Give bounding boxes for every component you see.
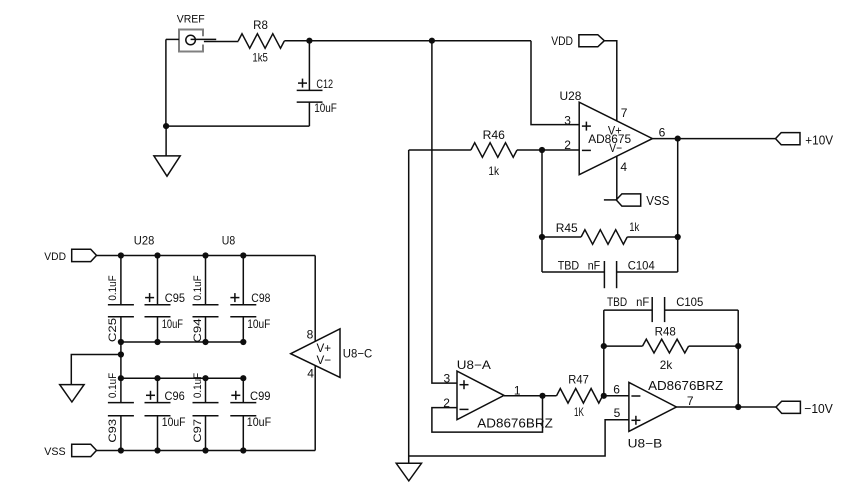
svg-text:C104: C104 (628, 258, 655, 272)
svg-text:1k: 1k (488, 164, 500, 178)
svg-text:1K: 1K (574, 405, 584, 419)
svg-text:VDD: VDD (44, 251, 66, 263)
power flag VSS (left) (72, 444, 97, 456)
junctions on lower rail (118, 375, 124, 381)
svg-text:TBD: TBD (558, 258, 580, 272)
svg-text:VSS: VSS (44, 446, 65, 458)
svg-text:V−: V− (609, 141, 622, 155)
svg-text:6: 6 (613, 382, 620, 396)
svg-text:R45: R45 (556, 221, 578, 235)
svg-text:VREF: VREF (177, 14, 205, 26)
capacitor C95 (145, 256, 171, 343)
wire U8-B output (676, 406, 776, 408)
svg-text:0.1uF: 0.1uF (107, 373, 119, 399)
svg-text:TBD: TBD (607, 295, 627, 309)
junction output node (675, 136, 681, 142)
lower rail (121, 377, 243, 379)
svg-text:VDD: VDD (551, 34, 573, 48)
svg-text:7: 7 (687, 394, 694, 408)
op-amp U8-A AD8676BRZ (457, 371, 504, 420)
svg-text:5: 5 (614, 406, 621, 420)
svg-text:8: 8 (307, 327, 314, 341)
wire U8-A output (504, 395, 557, 397)
resistor R46 (409, 149, 471, 151)
mid rail (121, 341, 243, 343)
wire VDD to U28 pin7 (604, 41, 617, 121)
svg-text:C93: C93 (107, 419, 119, 443)
svg-text:U8−B: U8−B (628, 437, 663, 451)
svg-text:10uF: 10uF (162, 415, 186, 429)
junction U8-B pin6 node (601, 393, 607, 399)
junction output node (735, 404, 741, 410)
ground (bottom-mid) (396, 463, 421, 481)
svg-text:3: 3 (444, 372, 451, 386)
svg-text:R46: R46 (483, 128, 506, 142)
junctions on mid rail (118, 339, 124, 345)
VDD rail (97, 255, 316, 257)
op-amp U8-C power pins (314, 256, 316, 342)
wire R8 to node A (284, 40, 309, 42)
svg-text:C94: C94 (192, 318, 204, 342)
wire pin2 node down to R45 (541, 150, 543, 237)
svg-text:10uF: 10uF (247, 415, 271, 429)
svg-text:R8: R8 (253, 18, 268, 32)
svg-text:0.1uF: 0.1uF (192, 373, 204, 399)
wire VREF down to ground node (165, 39, 167, 126)
svg-text:−10V: −10V (804, 401, 833, 416)
wire R46 left down to ground (408, 150, 410, 463)
node tap junction (429, 38, 435, 44)
wire ground tap (71, 355, 121, 385)
resistor R45 (539, 234, 545, 240)
VSS rail (97, 450, 316, 452)
svg-text:AD8676BRZ: AD8676BRZ (648, 378, 723, 393)
power flag VDD (top) (579, 35, 604, 47)
svg-text:nF: nF (636, 295, 649, 309)
svg-text:10uF: 10uF (162, 317, 183, 331)
ground (decoupling) (60, 385, 84, 402)
resistor R47 (557, 389, 603, 404)
wire U28 output (652, 138, 775, 140)
svg-text:U8−A: U8−A (457, 358, 491, 372)
wire U28 pin4 to VSS (616, 156, 618, 200)
wire output node down to R45 (677, 139, 679, 237)
svg-text:0.1uF: 0.1uF (192, 275, 204, 301)
capacitor C98 (230, 256, 256, 343)
wire VREF left (166, 38, 179, 40)
capacitor C25 (108, 256, 134, 343)
svg-text:nF: nF (588, 258, 601, 272)
svg-text:7: 7 (621, 106, 628, 120)
svg-text:U28: U28 (560, 89, 582, 103)
svg-text:U8−C: U8−C (343, 346, 373, 360)
svg-text:C12: C12 (316, 77, 333, 91)
svg-text:VSS: VSS (646, 193, 669, 208)
wire U8-B pin5 to ground rail (409, 420, 629, 456)
svg-text:C97: C97 (192, 419, 204, 443)
power flag VDD (left) (72, 249, 97, 261)
junction ground tap (118, 351, 124, 357)
junction VREF/C12 ground node (163, 123, 169, 129)
wire C12 bottom to ground node (166, 125, 309, 127)
svg-text:6: 6 (659, 126, 666, 140)
wire C105 left down (603, 310, 605, 396)
node A junction (306, 38, 312, 44)
svg-text:4: 4 (620, 160, 627, 174)
capacitor C99 (230, 378, 256, 450)
wire U8-A pin2 feedback loop (432, 396, 543, 432)
svg-text:+10V: +10V (805, 133, 833, 148)
junctions on VDD rail (118, 252, 124, 258)
wire C105 right down (737, 310, 739, 407)
ground (top-left) (154, 126, 180, 176)
junction U8-A output node (539, 393, 545, 399)
connector VREF (179, 30, 238, 52)
resistor R48 (601, 343, 607, 349)
svg-text:U28: U28 (134, 233, 155, 247)
capacitor C105 (604, 297, 738, 322)
svg-text:U8: U8 (222, 233, 236, 247)
svg-text:C105: C105 (676, 295, 703, 309)
svg-text:C98: C98 (251, 291, 270, 305)
power flag VSS (mid) (616, 194, 641, 206)
power flag -10V (776, 401, 800, 413)
svg-text:AD8676BRZ: AD8676BRZ (477, 415, 553, 430)
op-amp U8-B AD8676BRZ (629, 382, 677, 431)
svg-text:4: 4 (307, 366, 314, 380)
svg-text:1k: 1k (629, 220, 640, 234)
capacitor C104 (542, 237, 678, 288)
wire mid to lower rail (120, 342, 122, 378)
svg-text:10uF: 10uF (314, 101, 337, 115)
svg-text:C99: C99 (250, 389, 271, 403)
svg-text:3: 3 (564, 114, 571, 128)
capacitor C97 (193, 378, 219, 450)
svg-text:R47: R47 (568, 372, 589, 386)
power flag +10V (776, 133, 801, 145)
svg-text:C96: C96 (165, 389, 185, 403)
wire tap down to U8-A pin3 (432, 41, 457, 383)
svg-text:C25: C25 (107, 318, 119, 342)
op-amp U28 AD8675 (579, 102, 652, 175)
svg-text:R48: R48 (655, 324, 677, 338)
svg-text:10uF: 10uF (247, 317, 270, 331)
capacitor C12 (297, 41, 323, 126)
svg-text:0.1uF: 0.1uF (107, 275, 119, 301)
wire node A to U28 (309, 40, 531, 42)
capacitor C96 (145, 378, 171, 450)
svg-text:2k: 2k (660, 358, 673, 372)
svg-text:1k5: 1k5 (252, 50, 268, 64)
svg-text:C95: C95 (165, 291, 185, 305)
capacitor C94 (193, 256, 219, 343)
node U28 pin2 junction (539, 147, 545, 153)
resistor R8 (238, 34, 284, 49)
svg-text:V−: V− (317, 353, 332, 367)
capacitor C93 (108, 378, 134, 450)
junctions on VSS rail (118, 447, 124, 453)
